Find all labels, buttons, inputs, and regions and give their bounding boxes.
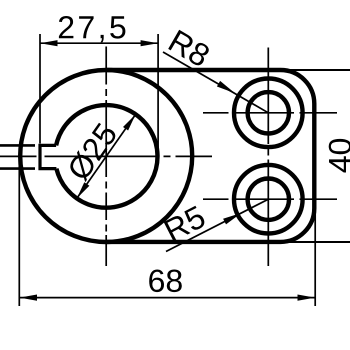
leader R5 arrow: [223, 213, 241, 225]
centerline hole top horizontal: [203, 112, 337, 114]
boss outer circle: [20, 70, 192, 242]
hole bottom inner circle: [248, 179, 289, 220]
dim 68 ext right: [314, 212, 316, 306]
dim diameter 25 text: [70, 123, 115, 183]
centerline bore vertical: [105, 47, 107, 267]
centerline holes vertical: [267, 48, 269, 267]
dim 27,5 text: [59, 16, 126, 42]
dim 40 text: [329, 139, 350, 173]
centerline bore horizontal: [0, 155, 212, 157]
hole top outer circle: [234, 79, 303, 148]
dim diameter 25 line: [77, 114, 136, 198]
leader R5 text: [164, 206, 205, 242]
keyway slot projection line bottom: [0, 167, 35, 170]
dim diameter 25 arrow upper: [123, 114, 136, 130]
plate outline: [106, 70, 314, 242]
centerline hole bottom horizontal: [203, 198, 337, 200]
bore circle with keyway: [56, 105, 157, 208]
leader R8 text: [168, 30, 209, 66]
hole bottom outer circle: [234, 165, 303, 234]
dim diameter 25 arrow lower: [77, 182, 90, 198]
leader R8 arrow: [217, 81, 235, 93]
hole top inner circle: [248, 92, 289, 133]
dim 27,5 arrow right: [141, 40, 159, 46]
dim 68 line: [20, 297, 316, 299]
keyway slot projection line top: [0, 144, 35, 147]
dim 27,5 ext right: [157, 34, 159, 160]
dim 68 arrow right: [298, 295, 316, 301]
dim 68 arrow left: [20, 295, 38, 301]
leader R5 line: [166, 199, 268, 251]
dim 27,5 ext left: [39, 34, 41, 144]
dim 27,5 arrow left: [40, 40, 58, 46]
dim 68 ext left: [18, 152, 20, 306]
dim 68 text: [149, 270, 182, 293]
keyway slot faces: [40, 145, 56, 168]
leader R8 line: [163, 52, 268, 113]
dim 27,5 line: [40, 42, 158, 44]
dim 40 ext top: [276, 69, 350, 71]
dim 40 ext bottom: [276, 241, 350, 243]
